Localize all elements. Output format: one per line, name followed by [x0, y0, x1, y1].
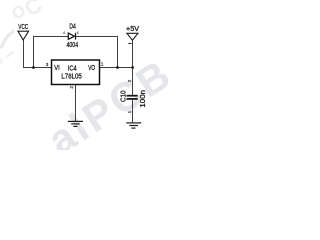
- watermark fragment left-edge dashes: [0, 60, 3, 63]
- junction dot node B (diode cathode / VO): [116, 66, 119, 69]
- diode D4: [63, 22, 80, 50]
- supply +5V symbol: [126, 24, 139, 43]
- svg-text:D4: D4: [69, 22, 75, 31]
- wire: cap bottom stem: [132, 100, 134, 123]
- supply VCC symbol: [18, 22, 29, 40]
- wire: +5V stem: [132, 40, 134, 67]
- wire: diode branch vertical: [33, 36, 35, 68]
- wire: diode branch horizontal to anode: [33, 36, 69, 38]
- wire: cathode to top-right corner: [76, 36, 119, 38]
- svg-text:+5V: +5V: [126, 24, 139, 33]
- svg-text:2: 2: [69, 86, 74, 89]
- ground (under C10): [126, 123, 141, 128]
- svg-text:L78L05: L78L05: [61, 71, 81, 80]
- svg-text:100n: 100n: [138, 90, 147, 108]
- wire: IC VO to +5V/cap node: [100, 67, 134, 69]
- svg-text:VCC: VCC: [18, 22, 28, 31]
- watermark fragment small diagonal: [7, 52, 13, 58]
- wire: cap top stem: [132, 67, 134, 95]
- svg-text:1: 1: [101, 62, 104, 67]
- svg-text:C10: C10: [118, 91, 127, 103]
- svg-text:3: 3: [46, 62, 49, 67]
- wire: IC ground stem: [75, 85, 77, 122]
- svg-text:1: 1: [127, 110, 132, 113]
- junction dot node C (+5V / cap): [131, 66, 134, 69]
- svg-text:VO: VO: [88, 63, 95, 72]
- svg-text:VI: VI: [54, 63, 60, 72]
- wire: bottom-left horizontal to IC VI: [23, 67, 52, 69]
- wire: VCC stem: [23, 40, 25, 68]
- regulator IC4 L78L05: [52, 60, 100, 85]
- ground (under IC): [68, 121, 83, 126]
- svg-text:2: 2: [127, 79, 132, 82]
- wire: top-right corner down: [117, 36, 119, 68]
- svg-text:4004: 4004: [67, 40, 79, 49]
- capacitor C10: [118, 90, 147, 108]
- junction dot node A (diode branch / VI): [32, 66, 35, 69]
- watermark fragment left-edge arc: [1, 31, 14, 49]
